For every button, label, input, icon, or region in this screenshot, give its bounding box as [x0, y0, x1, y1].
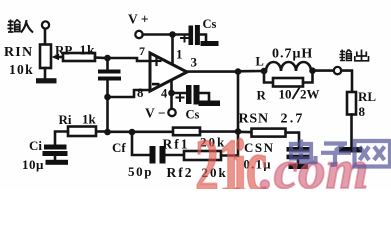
ground under CSN: [289, 164, 309, 169]
svg-text:8: 8: [359, 104, 366, 119]
node Cf branch junction dot: [129, 129, 136, 136]
wire node B to op-amp pin 8: [108, 90, 151, 97]
node feedback junction dot: [104, 129, 111, 136]
ground under RL: [339, 147, 362, 153]
svg-text:Ri: Ri: [59, 112, 72, 127]
node input terminal 输入: [42, 21, 49, 28]
wire Cs bottom to ground: [200, 93, 210, 101]
wire Ri to feedback node: [96, 130, 108, 133]
svg-text:RIN: RIN: [4, 45, 33, 60]
svg-text:7: 7: [139, 44, 145, 58]
resistor R parallel branch left: [264, 71, 273, 83]
resistor RP: [63, 53, 95, 61]
svg-text:10μ: 10μ: [22, 157, 44, 172]
capacitor Cf plates: [150, 146, 166, 164]
node A junction dot: [104, 55, 111, 62]
capacitor CSN plates: [287, 147, 310, 159]
node V+ terminal: [135, 31, 142, 38]
wire node A to op-amp pin 7: [108, 58, 151, 61]
resistor R: [273, 78, 303, 87]
node L right junction dot: [309, 67, 316, 74]
wire output rail to inductor: [238, 70, 264, 73]
wire V+ rail to capacitor Cs top: [173, 33, 189, 36]
wire capacitor bottom to node B: [106, 81, 109, 98]
wire output rail down to node C: [237, 72, 240, 132]
wire Rf1 to node C: [200, 130, 238, 133]
wire node B down to feedback node: [106, 97, 109, 132]
svg-text:V +: V +: [128, 12, 149, 27]
wire CSN to ground: [297, 159, 300, 164]
svg-text:RL: RL: [358, 89, 376, 104]
svg-text:10k: 10k: [9, 62, 34, 77]
resistor RIN (potentiometer body): [40, 45, 51, 69]
wire feedback node to Rf1: [108, 131, 174, 134]
ground under Ci: [46, 160, 69, 165]
resistor Rf2: [184, 151, 221, 160]
wire op-amp pin 4 down: [170, 81, 173, 94]
svg-text:2W: 2W: [300, 87, 320, 102]
op-amp minus input mark: [152, 83, 160, 86]
wire op-amp pin 1 to V+ rail: [171, 35, 174, 65]
node pin4 junction dot: [168, 90, 175, 97]
label 输出 output: [340, 50, 369, 62]
svg-text:50p: 50p: [128, 164, 153, 179]
svg-text:1k: 1k: [82, 112, 97, 127]
svg-text:Rf1: Rf1: [163, 137, 190, 152]
svg-text:Cs: Cs: [203, 17, 217, 31]
inductor L coil: [266, 62, 311, 71]
resistor Rf1: [173, 128, 200, 136]
svg-text:4: 4: [161, 87, 168, 101]
resistor Ri: [68, 127, 96, 137]
svg-text:0.7μH: 0.7μH: [272, 47, 313, 62]
svg-text:R: R: [257, 88, 267, 103]
polarity plus mark bottom Cs: [177, 94, 184, 101]
svg-text:10: 10: [279, 87, 292, 102]
ground top Cs: [201, 41, 219, 46]
polarity plus mark top Cs: [181, 35, 188, 42]
wire V+ terminal to pin1 node: [143, 33, 170, 36]
potentiometer wiper arrow into RIN: [52, 54, 65, 60]
wire L right to output terminal: [315, 69, 334, 72]
svg-text:V −: V −: [145, 106, 166, 121]
capacitor across inputs (top stub): [106, 58, 109, 70]
node V- terminal: [168, 109, 175, 116]
wire pin4 node to capacitor Cs bottom: [172, 92, 187, 95]
ground under RIN: [36, 78, 57, 83]
node C junction dot: [235, 128, 242, 135]
svg-text:L: L: [256, 55, 264, 69]
wire Rf2 up to node C: [221, 132, 238, 156]
wire Ci to ground: [54, 156, 57, 161]
node V+ rail junction dot: [169, 31, 176, 38]
wire Ri to Ci: [55, 132, 68, 145]
svg-text:1: 1: [176, 47, 183, 62]
wire input terminal to RIN: [44, 29, 47, 45]
svg-text:3: 3: [191, 55, 198, 70]
wire op-amp output pin 3: [186, 70, 238, 73]
svg-text:Cf: Cf: [112, 140, 126, 155]
wire Cf branch down: [132, 132, 150, 155]
capacitor Cs top plates: [189, 25, 200, 45]
resistor RL: [347, 92, 356, 115]
node B junction dot: [104, 94, 111, 101]
op-amp plus input mark: [153, 57, 161, 65]
capacitor Ci plates: [43, 145, 68, 157]
svg-text:21ic: 21ic: [195, 123, 267, 189]
svg-text:RP: RP: [55, 43, 72, 58]
watermark 电子网: [291, 140, 390, 167]
ground bottom Cs: [199, 101, 221, 107]
label 输入 input: [8, 20, 34, 33]
svg-text:8: 8: [137, 85, 144, 100]
wire RSN to CSN: [286, 133, 299, 147]
wire RIN to ground: [44, 68, 47, 79]
svg-text:2.7: 2.7: [281, 112, 305, 127]
capacitor Cs bottom plates: [186, 85, 200, 105]
wire Cf to Rf2: [166, 154, 185, 157]
svg-text:1k: 1k: [80, 43, 96, 58]
wire output terminal to RL: [341, 71, 352, 92]
op-amp U1 triangle: [150, 53, 187, 91]
wire Cs top to ground: [200, 35, 206, 42]
node L left junction dot: [261, 68, 268, 75]
wire R right branch: [303, 73, 313, 83]
wire node C to RSN: [238, 131, 253, 134]
svg-text:Ci: Ci: [29, 138, 42, 153]
wire pin4 node to V- terminal: [170, 93, 173, 109]
capacitor across inputs plates: [98, 70, 121, 81]
label 10/2W (R value): [293, 88, 300, 100]
wire RL to ground: [350, 115, 353, 148]
svg-text:Rf2: Rf2: [167, 165, 194, 180]
svg-text:Cs: Cs: [186, 108, 200, 122]
resistor RSN: [252, 129, 286, 137]
wire RP to node A: [95, 56, 105, 59]
node output terminal 输出: [334, 67, 341, 74]
node output rail junction dot: [235, 68, 242, 75]
